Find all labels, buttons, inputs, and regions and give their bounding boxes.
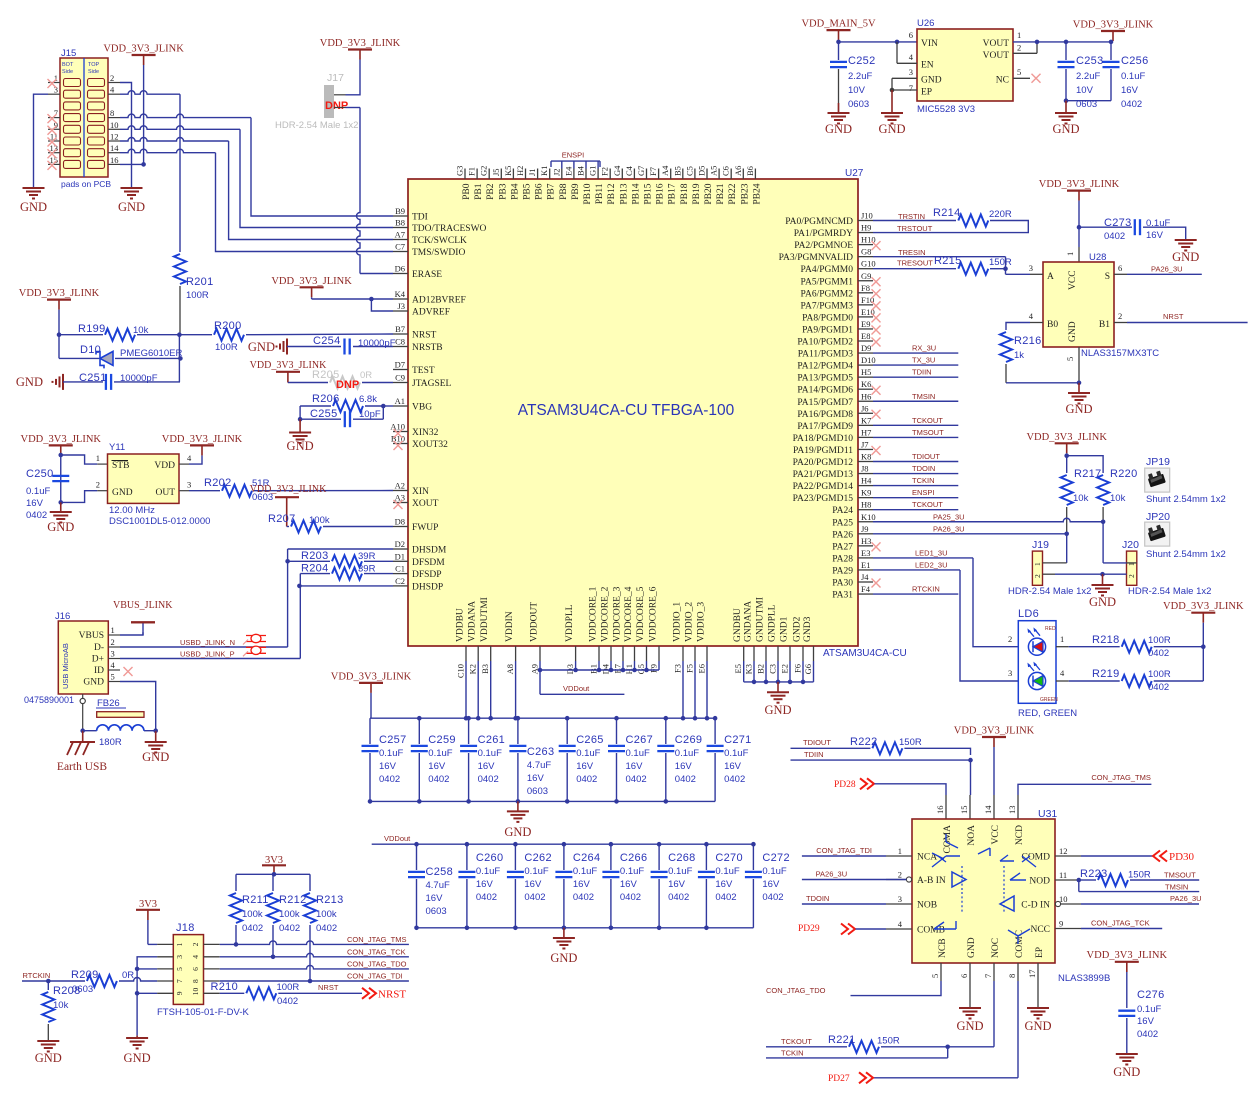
svg-text:NC: NC	[996, 76, 1009, 86]
svg-text:XIN32: XIN32	[412, 428, 439, 438]
svg-text:GND: GND	[83, 678, 104, 688]
svg-text:2: 2	[111, 637, 115, 647]
svg-text:16V: 16V	[1146, 230, 1164, 241]
svg-text:C276: C276	[1137, 989, 1165, 1001]
svg-text:6: 6	[1118, 263, 1122, 273]
svg-text:PA1/PGMRDY: PA1/PGMRDY	[794, 229, 853, 239]
svg-text:A4: A4	[660, 165, 670, 176]
svg-text:PA6/PGMM2: PA6/PGMM2	[801, 289, 854, 299]
svg-text:LED1_3U: LED1_3U	[915, 548, 948, 557]
svg-text:J20: J20	[1122, 539, 1139, 551]
svg-text:12.00 MHz: 12.00 MHz	[109, 505, 155, 516]
svg-text:GND: GND	[1172, 250, 1199, 264]
svg-text:16V: 16V	[576, 761, 594, 772]
svg-text:PB20: PB20	[704, 183, 714, 204]
svg-text:F1: F1	[467, 167, 477, 176]
svg-text:PA29: PA29	[832, 566, 853, 576]
svg-text:GND: GND	[921, 76, 942, 86]
svg-text:R201: R201	[186, 276, 214, 288]
svg-text:E3: E3	[861, 548, 870, 558]
svg-text:G7: G7	[636, 166, 646, 176]
svg-text:3: 3	[111, 649, 115, 659]
svg-text:TMSOUT: TMSOUT	[1164, 871, 1196, 880]
svg-text:USB MicroAB: USB MicroAB	[61, 643, 70, 689]
svg-text:VDDIN: VDDIN	[505, 611, 515, 642]
svg-text:JTAGSEL: JTAGSEL	[412, 379, 452, 389]
svg-text:FWUP: FWUP	[412, 523, 438, 533]
svg-text:PA10/PGMD2: PA10/PGMD2	[797, 338, 853, 348]
svg-text:TDIOUT: TDIOUT	[803, 738, 831, 747]
svg-text:TCKOUT: TCKOUT	[912, 416, 943, 425]
svg-text:RED, GREEN: RED, GREEN	[1018, 708, 1077, 719]
svg-text:0402: 0402	[524, 892, 545, 903]
svg-text:150R: 150R	[1128, 870, 1151, 881]
svg-text:VDDCORE_2: VDDCORE_2	[601, 586, 611, 642]
svg-text:J2: J2	[551, 168, 561, 176]
svg-text:VDD_3V3_JLINK: VDD_3V3_JLINK	[1026, 432, 1107, 443]
svg-text:B1: B1	[1099, 320, 1110, 330]
svg-text:16V: 16V	[1121, 85, 1139, 96]
svg-text:0402: 0402	[1104, 231, 1125, 242]
svg-text:GNDANA: GNDANA	[744, 601, 754, 642]
svg-text:G2: G2	[479, 166, 489, 176]
svg-text:E5: E5	[733, 664, 743, 673]
svg-text:GND: GND	[47, 520, 74, 534]
svg-text:39R: 39R	[358, 564, 376, 575]
svg-text:J18: J18	[176, 922, 195, 934]
svg-text:15: 15	[959, 806, 969, 815]
svg-text:100k: 100k	[242, 909, 263, 920]
svg-text:R213: R213	[316, 894, 344, 906]
svg-text:VDD_3V3_JLINK: VDD_3V3_JLINK	[103, 44, 184, 55]
svg-text:TCKOUT: TCKOUT	[781, 1037, 812, 1046]
svg-text:PB13: PB13	[619, 183, 629, 204]
svg-text:F6: F6	[793, 664, 803, 673]
svg-text:PA11/PGMD3: PA11/PGMD3	[798, 350, 854, 360]
svg-text:8: 8	[191, 979, 200, 983]
svg-text:C9: C9	[395, 373, 405, 383]
svg-text:12: 12	[1059, 846, 1068, 856]
svg-text:C272: C272	[762, 852, 790, 864]
svg-text:TMSIN: TMSIN	[1165, 883, 1188, 892]
svg-text:C263: C263	[527, 746, 555, 758]
svg-text:VDDOUT: VDDOUT	[530, 602, 540, 642]
svg-text:16V: 16V	[426, 893, 444, 904]
svg-text:GNDUTMI: GNDUTMI	[756, 597, 766, 642]
svg-text:TDIOUT: TDIOUT	[912, 452, 940, 461]
svg-text:GND: GND	[142, 750, 169, 764]
svg-text:2: 2	[1118, 311, 1122, 321]
svg-text:VOUT: VOUT	[983, 51, 1010, 61]
svg-text:GND: GND	[764, 703, 791, 717]
svg-text:VDDCORE_5: VDDCORE_5	[636, 586, 646, 642]
svg-text:USBD_JLINK_N: USBD_JLINK_N	[180, 638, 235, 647]
svg-text:100R: 100R	[1148, 669, 1171, 680]
svg-text:U28: U28	[1089, 252, 1106, 263]
svg-text:VDDANA: VDDANA	[468, 601, 478, 642]
svg-text:GND: GND	[287, 439, 314, 453]
svg-text:0402: 0402	[1121, 99, 1142, 110]
svg-text:0402: 0402	[1148, 682, 1169, 693]
svg-text:16V: 16V	[620, 879, 638, 890]
svg-text:B2: B2	[756, 664, 766, 674]
svg-text:TCKIN: TCKIN	[912, 476, 935, 485]
svg-text:D10: D10	[80, 344, 101, 356]
svg-text:OUT: OUT	[155, 488, 175, 498]
svg-text:0402: 0402	[715, 892, 736, 903]
svg-text:B8: B8	[395, 218, 405, 228]
svg-text:R217: R217	[1074, 468, 1102, 480]
svg-text:C253: C253	[1076, 55, 1104, 67]
svg-text:F3: F3	[673, 664, 683, 673]
svg-text:PA26_3U: PA26_3U	[816, 870, 848, 879]
svg-text:F10: F10	[861, 295, 874, 305]
svg-text:PB3: PB3	[498, 183, 508, 200]
svg-text:16V: 16V	[428, 761, 446, 772]
svg-text:16V: 16V	[1137, 1016, 1155, 1027]
svg-text:PA26_3U: PA26_3U	[933, 524, 965, 533]
svg-text:8: 8	[110, 108, 114, 118]
svg-text:ENSPI: ENSPI	[562, 151, 585, 160]
svg-text:C260: C260	[476, 852, 504, 864]
svg-text:VDD_3V3_JLINK: VDD_3V3_JLINK	[954, 726, 1035, 737]
svg-text:150R: 150R	[989, 257, 1012, 268]
svg-text:VDD_3V3_JLINK: VDD_3V3_JLINK	[162, 434, 243, 445]
svg-text:16V: 16V	[724, 761, 742, 772]
svg-text:NLAS3157MX3TC: NLAS3157MX3TC	[1081, 348, 1159, 359]
svg-text:R216: R216	[1014, 335, 1042, 347]
svg-text:16V: 16V	[478, 761, 496, 772]
svg-text:D6: D6	[395, 264, 405, 274]
svg-text:7: 7	[909, 83, 913, 93]
svg-text:B5: B5	[672, 166, 682, 176]
svg-text:A: A	[1047, 272, 1054, 282]
svg-text:PA9/PGMD1: PA9/PGMD1	[802, 325, 853, 335]
svg-text:GND: GND	[1068, 321, 1078, 342]
svg-text:VDD_3V3_JLINK: VDD_3V3_JLINK	[250, 484, 327, 495]
svg-text:PB18: PB18	[680, 183, 690, 204]
svg-text:RED: RED	[1045, 626, 1056, 632]
svg-text:1: 1	[1065, 252, 1075, 256]
svg-text:220R: 220R	[989, 209, 1012, 220]
svg-text:C269: C269	[675, 734, 703, 746]
svg-text:PA2/PGMNOE: PA2/PGMNOE	[794, 241, 853, 251]
svg-text:3: 3	[898, 894, 902, 904]
svg-text:0402: 0402	[576, 774, 597, 785]
svg-text:1: 1	[1033, 562, 1042, 566]
svg-text:R199: R199	[78, 323, 106, 335]
svg-text:C256: C256	[1121, 55, 1149, 67]
svg-text:C266: C266	[620, 852, 648, 864]
svg-text:R202: R202	[204, 477, 232, 489]
svg-text:PB9: PB9	[571, 183, 581, 200]
svg-text:ATSAM3U4CA-CU: ATSAM3U4CA-CU	[823, 648, 907, 659]
svg-text:10000pF: 10000pF	[358, 338, 396, 349]
svg-text:TRSTOUT: TRSTOUT	[897, 224, 933, 233]
svg-text:K2: K2	[468, 664, 478, 674]
svg-text:0402: 0402	[478, 774, 499, 785]
svg-text:PB19: PB19	[692, 183, 702, 204]
svg-text:1: 1	[898, 846, 902, 856]
svg-text:PA28: PA28	[832, 554, 853, 564]
svg-text:DHSDM: DHSDM	[412, 546, 447, 556]
svg-text:0.1uF: 0.1uF	[715, 866, 739, 877]
svg-text:C270: C270	[715, 852, 743, 864]
svg-text:RTCKIN: RTCKIN	[912, 585, 940, 594]
svg-text:J4: J4	[861, 572, 869, 582]
svg-text:EN: EN	[921, 61, 934, 71]
svg-text:9: 9	[1059, 919, 1063, 929]
svg-text:PA25_3U: PA25_3U	[933, 512, 965, 521]
svg-text:J9: J9	[861, 524, 869, 534]
svg-text:H6: H6	[861, 391, 871, 401]
svg-text:GND: GND	[124, 1051, 151, 1065]
svg-text:NCB: NCB	[938, 938, 948, 958]
svg-text:NRST: NRST	[378, 989, 406, 1001]
svg-text:7: 7	[175, 979, 184, 983]
svg-text:2.2uF: 2.2uF	[1076, 71, 1100, 82]
svg-text:K3: K3	[744, 664, 754, 674]
svg-text:COMD: COMD	[1021, 853, 1050, 863]
svg-text:ERASE: ERASE	[412, 270, 442, 280]
svg-text:10k: 10k	[1110, 493, 1126, 504]
svg-text:0402: 0402	[476, 892, 497, 903]
svg-text:VDDIO_1: VDDIO_1	[673, 602, 683, 642]
svg-text:2.2uF: 2.2uF	[848, 71, 872, 82]
svg-text:D5: D5	[697, 166, 707, 176]
svg-text:VDD_3V3_JLINK: VDD_3V3_JLINK	[271, 276, 352, 287]
svg-text:PA21/PGMD13: PA21/PGMD13	[793, 470, 854, 480]
svg-text:VDD_3V3_JLINK: VDD_3V3_JLINK	[1073, 20, 1154, 31]
svg-text:2: 2	[898, 870, 902, 880]
svg-text:MIC5528 3V3: MIC5528 3V3	[917, 104, 975, 115]
svg-text:0.1uF: 0.1uF	[26, 486, 50, 497]
svg-text:PB16: PB16	[656, 183, 666, 204]
svg-text:VDD_3V3_JLINK: VDD_3V3_JLINK	[1087, 950, 1168, 961]
svg-text:PA30: PA30	[832, 579, 853, 589]
svg-text:C252: C252	[848, 55, 876, 67]
svg-text:10V: 10V	[848, 85, 866, 96]
svg-text:TRSTIN: TRSTIN	[898, 212, 925, 221]
svg-text:FB26: FB26	[97, 698, 120, 709]
svg-text:GND: GND	[825, 122, 852, 136]
svg-text:GND3: GND3	[803, 616, 813, 642]
svg-text:F7: F7	[648, 167, 658, 176]
svg-text:VBUS_JLINK: VBUS_JLINK	[113, 600, 173, 611]
svg-text:100R: 100R	[186, 290, 209, 301]
svg-text:150R: 150R	[877, 1036, 900, 1047]
svg-text:D+: D+	[92, 655, 104, 665]
svg-text:J1: J1	[527, 168, 537, 176]
svg-text:VCC: VCC	[991, 825, 1001, 845]
svg-text:PA15/PGMD7: PA15/PGMD7	[797, 398, 853, 408]
svg-text:16V: 16V	[668, 879, 686, 890]
svg-text:10k: 10k	[133, 325, 149, 336]
svg-text:H4: H4	[861, 476, 872, 486]
svg-text:0402: 0402	[668, 892, 689, 903]
svg-text:GND: GND	[112, 488, 133, 498]
svg-text:B4: B4	[576, 165, 586, 176]
svg-text:GND: GND	[967, 937, 977, 958]
svg-text:0402: 0402	[277, 996, 298, 1007]
svg-text:C4: C4	[624, 165, 634, 176]
svg-text:2: 2	[110, 73, 114, 83]
svg-text:VDDout: VDDout	[384, 834, 411, 843]
svg-text:0R: 0R	[360, 370, 372, 381]
svg-text:PB11: PB11	[595, 183, 605, 204]
svg-text:PA27: PA27	[832, 542, 853, 552]
svg-text:0R: 0R	[122, 970, 134, 981]
svg-text:C271: C271	[724, 734, 752, 746]
svg-text:VDD_3V3_JLINK: VDD_3V3_JLINK	[1039, 179, 1120, 190]
svg-text:H8: H8	[861, 500, 871, 510]
svg-text:NRST: NRST	[318, 983, 339, 992]
svg-text:PA4/PGMM0: PA4/PGMM0	[801, 265, 854, 275]
svg-text:0603: 0603	[848, 99, 869, 110]
svg-text:VDD_MAIN_5V: VDD_MAIN_5V	[801, 19, 875, 30]
svg-text:100k: 100k	[309, 515, 330, 526]
svg-text:0603: 0603	[1076, 99, 1097, 110]
svg-text:0.1uF: 0.1uF	[524, 866, 548, 877]
svg-text:D8: D8	[395, 517, 405, 527]
svg-text:16V: 16V	[762, 879, 780, 890]
svg-text:B10: B10	[391, 434, 405, 444]
svg-text:10: 10	[191, 988, 200, 996]
svg-text:K5: K5	[503, 166, 513, 176]
svg-text:DFSDP: DFSDP	[412, 570, 442, 580]
svg-text:BOT: BOT	[62, 62, 74, 68]
svg-text:16V: 16V	[626, 761, 644, 772]
svg-text:PB8: PB8	[559, 183, 569, 200]
svg-text:VDDUTMI: VDDUTMI	[480, 597, 490, 642]
svg-text:B6: B6	[745, 166, 755, 176]
svg-text:PB14: PB14	[631, 183, 641, 204]
svg-text:G8: G8	[861, 247, 871, 257]
svg-text:VDDCORE_4: VDDCORE_4	[624, 586, 634, 642]
svg-text:0.1uF: 0.1uF	[675, 748, 699, 759]
svg-text:C250: C250	[26, 468, 54, 480]
svg-text:PA26_3U: PA26_3U	[1170, 894, 1202, 903]
svg-text:CON_JTAG_TMS: CON_JTAG_TMS	[347, 935, 406, 944]
svg-text:GND: GND	[1113, 1065, 1140, 1079]
svg-text:H9: H9	[861, 223, 871, 233]
svg-text:C7: C7	[395, 242, 405, 252]
svg-text:0.1uF: 0.1uF	[1121, 71, 1145, 82]
svg-text:0402: 0402	[675, 774, 696, 785]
svg-text:XOUT: XOUT	[412, 499, 439, 509]
svg-text:TDIIN: TDIIN	[912, 368, 932, 377]
svg-text:1: 1	[96, 453, 100, 463]
svg-text:R218: R218	[1092, 634, 1120, 646]
svg-text:PA12/PGMD4: PA12/PGMD4	[797, 362, 853, 372]
svg-text:D2: D2	[395, 539, 405, 549]
svg-text:DNP: DNP	[336, 379, 359, 391]
svg-text:16V: 16V	[379, 761, 397, 772]
svg-text:E2: E2	[780, 664, 790, 673]
svg-text:JP19: JP19	[1146, 456, 1170, 468]
svg-text:C10: C10	[456, 664, 466, 678]
svg-text:A10: A10	[390, 422, 405, 432]
svg-text:TMSIN: TMSIN	[912, 392, 935, 401]
svg-text:G6: G6	[803, 664, 813, 674]
svg-text:PA16/PGMD8: PA16/PGMD8	[797, 410, 853, 420]
svg-text:STB: STB	[112, 461, 129, 471]
svg-text:TOP: TOP	[88, 62, 100, 68]
svg-text:PB0: PB0	[462, 183, 472, 200]
svg-text:PD30: PD30	[1169, 851, 1195, 863]
svg-text:14: 14	[983, 805, 993, 814]
svg-text:K6: K6	[861, 379, 871, 389]
svg-text:0.1uF: 0.1uF	[762, 866, 786, 877]
svg-text:16V: 16V	[675, 761, 693, 772]
svg-text:C-D IN: C-D IN	[1021, 901, 1050, 911]
svg-text:D1: D1	[395, 551, 405, 561]
svg-text:R219: R219	[1092, 668, 1120, 680]
svg-text:HDR-2.54 Male 1x2: HDR-2.54 Male 1x2	[1128, 586, 1211, 597]
svg-text:VDD_3V3_JLINK: VDD_3V3_JLINK	[19, 288, 100, 299]
svg-text:6.8k: 6.8k	[359, 394, 377, 405]
svg-text:G10: G10	[861, 259, 876, 269]
svg-text:0603: 0603	[426, 906, 447, 917]
svg-text:GND: GND	[550, 951, 577, 965]
svg-text:16V: 16V	[26, 498, 44, 509]
svg-text:VDDPLL: VDDPLL	[565, 604, 575, 642]
svg-text:100R: 100R	[215, 342, 238, 353]
svg-text:R204: R204	[301, 563, 329, 575]
svg-text:G3: G3	[455, 166, 465, 176]
svg-text:0475890001: 0475890001	[24, 695, 74, 705]
svg-text:J15: J15	[61, 48, 76, 59]
svg-text:1k: 1k	[1014, 350, 1024, 361]
svg-text:R203: R203	[301, 550, 329, 562]
svg-text:PA23/PGMD15: PA23/PGMD15	[793, 494, 854, 504]
svg-text:NOC: NOC	[991, 938, 1001, 958]
svg-text:GND: GND	[1024, 1019, 1051, 1033]
svg-text:100k: 100k	[316, 909, 337, 920]
svg-text:C251: C251	[79, 372, 107, 384]
svg-text:TCKIN: TCKIN	[781, 1049, 804, 1058]
svg-text:16V: 16V	[527, 773, 545, 784]
svg-text:PA8/PGMD0: PA8/PGMD0	[802, 313, 853, 323]
svg-text:TCKOUT: TCKOUT	[912, 500, 943, 509]
svg-text:TDOIN: TDOIN	[806, 894, 829, 903]
svg-text:R215: R215	[934, 255, 962, 267]
svg-text:PB22: PB22	[728, 183, 738, 204]
svg-text:E4: E4	[563, 166, 573, 176]
svg-text:H2: H2	[515, 166, 525, 176]
svg-text:0402: 0402	[316, 923, 337, 934]
svg-text:G4: G4	[612, 165, 622, 176]
svg-text:C262: C262	[524, 852, 552, 864]
svg-text:GREEN: GREEN	[1040, 697, 1058, 703]
svg-text:Shunt 2.54mm 1x2: Shunt 2.54mm 1x2	[1146, 494, 1226, 505]
svg-text:4.7uF: 4.7uF	[527, 760, 551, 771]
svg-text:C1: C1	[395, 564, 405, 574]
svg-text:12: 12	[110, 132, 119, 142]
svg-text:CON_JTAG_TCK: CON_JTAG_TCK	[347, 948, 406, 957]
svg-text:0402: 0402	[279, 923, 300, 934]
svg-text:PA19/PGMD11: PA19/PGMD11	[793, 446, 853, 456]
svg-text:C265: C265	[576, 734, 604, 746]
svg-text:A5: A5	[709, 166, 719, 176]
svg-text:CON_JTAG_TDO: CON_JTAG_TDO	[766, 986, 826, 995]
svg-text:10000pF: 10000pF	[120, 373, 158, 384]
svg-text:R222: R222	[850, 736, 878, 748]
svg-text:0402: 0402	[724, 774, 745, 785]
svg-text:VDD_3V3_JLINK: VDD_3V3_JLINK	[21, 434, 102, 445]
svg-text:J7: J7	[861, 439, 869, 449]
svg-text:0.1uF: 0.1uF	[724, 748, 748, 759]
